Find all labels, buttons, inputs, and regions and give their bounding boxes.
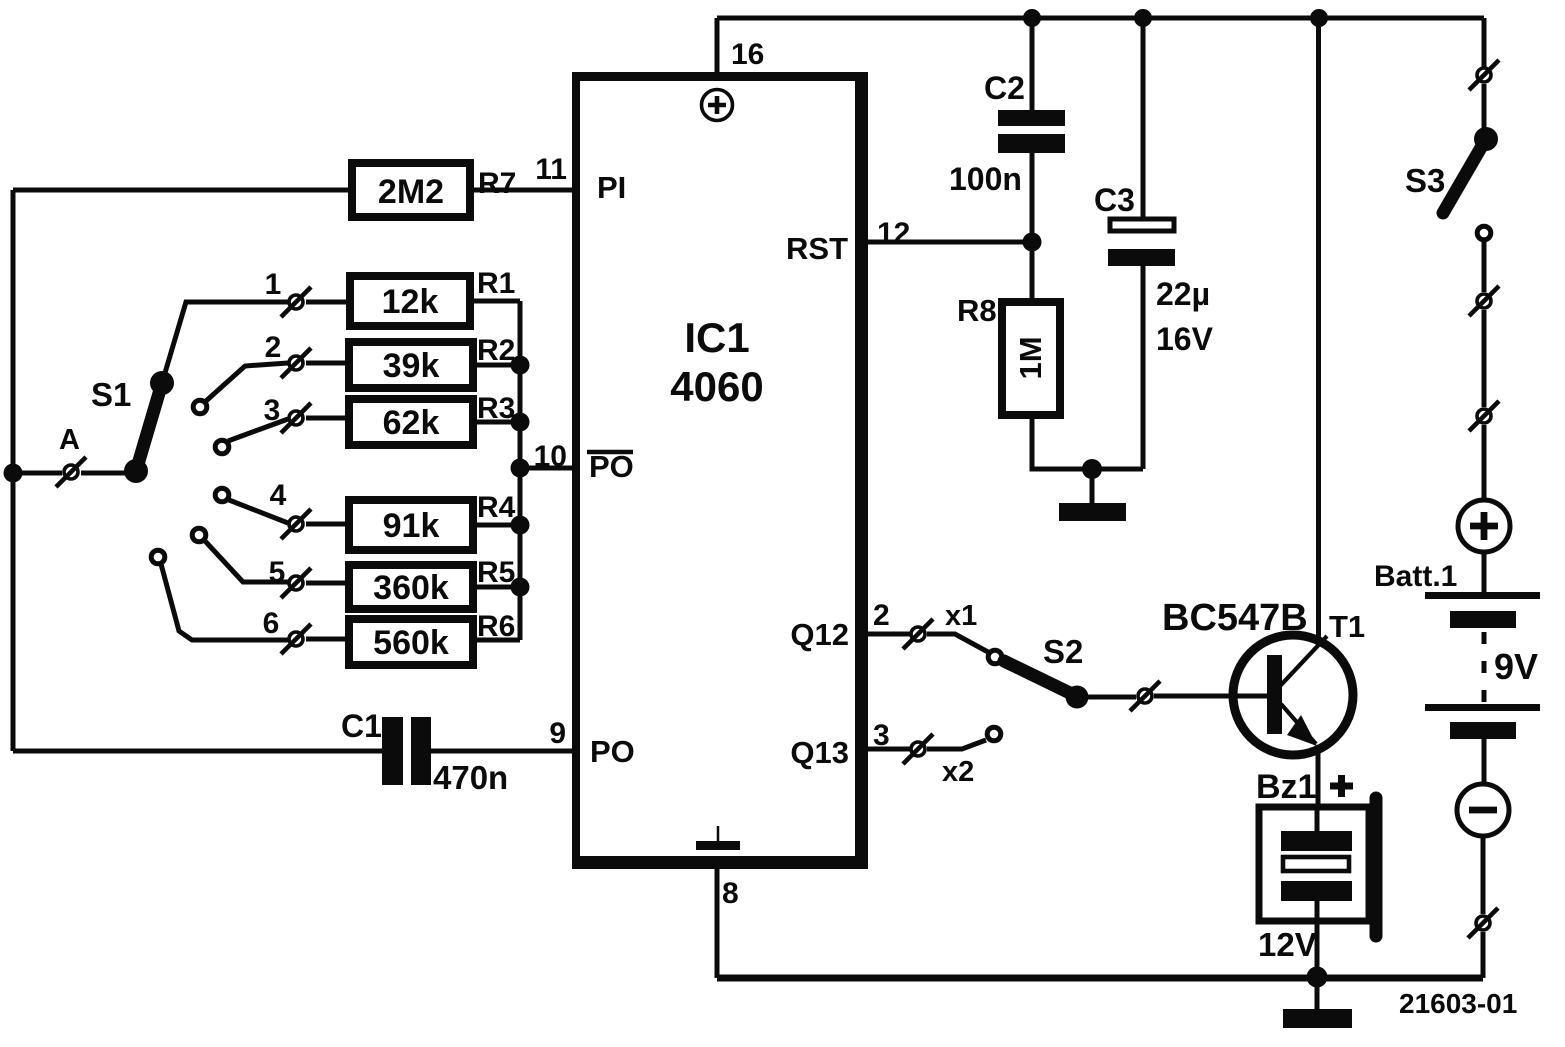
wire RST to C2 (868, 240, 1032, 245)
svg-text:16: 16 (731, 38, 764, 71)
switch contact chain 1 (1469, 286, 1499, 316)
wire R7 to pin 11 (470, 188, 574, 193)
switch contact x1 (903, 619, 933, 649)
ground symbol C2/C3 (1059, 469, 1126, 521)
svg-text:R5: R5 (477, 556, 515, 589)
wire S3 chain 1 (1482, 240, 1487, 292)
svg-text:21603-01: 21603-01 (1399, 988, 1517, 1019)
resistor R2 (349, 342, 473, 388)
svg-text:Batt.1: Batt.1 (1374, 560, 1457, 593)
wire contact to bottom rail (1481, 932, 1486, 978)
wire S2 to contact (1088, 695, 1136, 700)
wire rail to C2 (1030, 18, 1035, 110)
svg-text:x1: x1 (945, 600, 977, 632)
wire open contact 2 to contact 2 (206, 363, 288, 401)
svg-text:5: 5 (269, 556, 286, 589)
svg-text:12: 12 (877, 217, 910, 250)
svg-text:PO: PO (590, 734, 635, 769)
wire rail to C3 (1141, 18, 1146, 217)
wire contact 1 to R1 (306, 300, 350, 305)
wire contact to S3 (1482, 84, 1487, 130)
switch contact 4 (281, 509, 311, 539)
resistor R5 (349, 565, 473, 609)
svg-text:22µ: 22µ (1156, 276, 1210, 312)
svg-text:C2: C2 (984, 70, 1025, 106)
open contact 6 (151, 550, 165, 564)
svg-text:39k: 39k (383, 347, 440, 385)
resistor R1 (350, 276, 470, 326)
open contact S2 (988, 650, 1002, 664)
wire top-left horizontal (13, 188, 352, 193)
junction R4 bus (511, 516, 530, 535)
junction top rail C3 (1134, 9, 1152, 27)
wire open contact 6 to contact 6 (161, 564, 288, 640)
open contact 3 (215, 440, 229, 454)
wire R2 to bus (473, 363, 520, 368)
svg-text:12k: 12k (382, 283, 439, 321)
switch contact 2 (281, 348, 311, 378)
wire R3 to bus (473, 420, 520, 425)
switch contact bottom (1468, 908, 1498, 938)
wire contact 3 to R3 (306, 416, 349, 421)
wire open contact 4 to contact 4 (229, 500, 288, 523)
svg-text:16V: 16V (1156, 321, 1214, 357)
junction bottom rail (1307, 967, 1328, 988)
svg-text:PI: PI (597, 170, 626, 205)
IC1 body (572, 72, 868, 869)
svg-text:R8: R8 (957, 293, 997, 328)
resistor R3 (349, 399, 473, 445)
battery Batt.1 cell 1 (1425, 592, 1540, 628)
Bz1 plus sign (1330, 775, 1353, 797)
wire S3 chain 3 (1482, 425, 1487, 499)
svg-text:12V: 12V (1258, 926, 1317, 963)
wire contact 5 to R5 (306, 581, 349, 586)
svg-text:T1: T1 (1329, 609, 1365, 644)
svg-text:Q12: Q12 (790, 617, 849, 652)
wire open contact 5 to contact 5 (205, 541, 288, 582)
svg-text:9: 9 (549, 717, 566, 750)
battery Batt.1 cell 2 (1425, 704, 1540, 739)
switch contact S3 top (1469, 60, 1499, 90)
wire contact x1 to S2 (927, 634, 988, 652)
svg-text:Q13: Q13 (790, 735, 849, 770)
wire node A to contact A (13, 471, 62, 476)
wire top rail (717, 16, 1484, 21)
junction R2 bus (511, 356, 530, 375)
svg-text:S3: S3 (1405, 162, 1445, 199)
wire R1 to bus (470, 299, 520, 304)
capacitor C1 (382, 717, 431, 785)
wire open contact 3 to contact 3 (228, 419, 288, 441)
wire C3 bottom (1141, 266, 1146, 469)
svg-text:2: 2 (873, 599, 890, 632)
battery minus terminal (1457, 784, 1509, 836)
wire bottom rail (717, 975, 1483, 982)
switch S3 (1443, 127, 1498, 213)
junction top rail T1 (1310, 9, 1328, 27)
junction R5 bus (511, 578, 530, 597)
wire R6 to bus (473, 638, 520, 643)
wire R8 bottom (1032, 415, 1143, 469)
wire top rail corner down (1482, 18, 1487, 67)
svg-text:470n: 470n (433, 759, 508, 796)
wire S1 to contact 1 (162, 302, 288, 383)
svg-text:C3: C3 (1094, 182, 1135, 218)
svg-text:S1: S1 (91, 376, 131, 413)
resistor R4 (349, 500, 473, 550)
svg-text:2M2: 2M2 (378, 173, 444, 211)
svg-text:3: 3 (264, 394, 281, 427)
svg-text:C1: C1 (341, 708, 382, 744)
svg-text:560k: 560k (373, 624, 449, 662)
wire T1 emitter to Bz1 (1316, 752, 1321, 832)
wire contact 2 to R2 (306, 361, 349, 366)
svg-text:S2: S2 (1043, 633, 1083, 670)
svg-text:6: 6 (263, 607, 280, 640)
wire minus to contact (1481, 835, 1486, 914)
pin 16 wire (715, 18, 720, 72)
capacitor C2 (998, 110, 1065, 153)
battery plus terminal (1458, 500, 1510, 552)
resistor R7 (352, 163, 470, 217)
svg-text:R1: R1 (477, 267, 515, 300)
wire R5 to bus (473, 585, 520, 590)
open contact 5 (192, 528, 206, 542)
wire R4 to bus (473, 523, 520, 528)
switch S2 (1004, 661, 1089, 709)
switch contact 5 (281, 568, 311, 598)
svg-text:R7: R7 (478, 167, 516, 200)
wire Bz1 to bottom rail (1315, 901, 1320, 977)
switch contact 3 (281, 403, 311, 433)
switch contact A (56, 457, 86, 487)
open contact 2 (193, 400, 207, 414)
junction top rail C2 (1023, 9, 1041, 27)
open contact S3 (1477, 226, 1491, 240)
wire contact x2 to open contact (927, 740, 986, 749)
svg-text:9V: 9V (1494, 646, 1538, 687)
svg-text:100n: 100n (949, 161, 1022, 197)
battery dashed center (1482, 632, 1487, 702)
svg-text:91k: 91k (383, 507, 440, 545)
pin name PO with overline (587, 449, 634, 484)
switch contact 6 (281, 624, 311, 654)
svg-text:R4: R4 (477, 491, 516, 524)
svg-text:8: 8 (722, 877, 739, 910)
wire C1 left (13, 749, 382, 754)
svg-text:BC547B: BC547B (1162, 597, 1308, 639)
junction pin 10 (511, 459, 530, 478)
switch contact x2 (903, 734, 933, 764)
wire rail to T1 collector (1316, 18, 1321, 640)
wire contact A to S1 (81, 471, 136, 476)
svg-text:R2: R2 (477, 334, 515, 367)
svg-text:1: 1 (265, 268, 282, 301)
node A junction (4, 464, 23, 483)
junction RST node (1023, 233, 1042, 252)
junction R3 bus (511, 413, 530, 432)
wire resistor bus (518, 301, 523, 640)
switch contact 1 (281, 287, 311, 317)
svg-text:360k: 360k (373, 569, 449, 607)
wire bus to pin 10 (520, 466, 574, 471)
svg-text:Bz1: Bz1 (1256, 768, 1316, 806)
switch contact S2 out (1130, 681, 1160, 711)
transistor T1 (1233, 635, 1353, 755)
svg-text:1M: 1M (1013, 336, 1048, 379)
svg-text:RST: RST (786, 231, 848, 266)
wire C2 to R8 (1030, 153, 1035, 302)
wire contact 4 to R4 (306, 522, 349, 527)
svg-text:62k: 62k (383, 404, 440, 442)
wire C1 to pin 9 (431, 749, 574, 754)
wire battery to minus (1482, 739, 1487, 783)
wire contact to T1 base (1154, 694, 1267, 699)
wire left vertical (11, 190, 16, 751)
svg-text:4060: 4060 (670, 363, 763, 410)
wire plus to battery (1482, 550, 1487, 592)
IC negative supply symbol (696, 826, 740, 850)
wire Q13 to contact (868, 747, 910, 752)
junction ground node (1082, 459, 1102, 479)
svg-text:4: 4 (270, 479, 287, 512)
wire contact 6 to R6 (306, 637, 349, 642)
wire S3 chain 2 (1482, 310, 1487, 407)
svg-text:x2: x2 (942, 756, 974, 788)
wire Q12 to contact x1 (868, 632, 910, 637)
svg-text:A: A (59, 424, 80, 456)
switch S1 (124, 371, 174, 483)
open contact 4 (215, 488, 229, 502)
svg-text:IC1: IC1 (684, 314, 749, 361)
ground symbol bottom (1283, 977, 1352, 1028)
svg-text:11: 11 (535, 153, 567, 186)
pin 8 wire (715, 866, 720, 978)
switch contact chain 2 (1469, 401, 1499, 431)
IC positive supply symbol (702, 90, 733, 121)
open contact x2 (987, 727, 1001, 741)
resistor R8 (1002, 302, 1060, 415)
capacitor C3 electrolytic (1108, 219, 1175, 266)
resistor R6 (349, 619, 473, 665)
svg-text:10: 10 (534, 440, 567, 473)
svg-text:2: 2 (265, 331, 282, 364)
buzzer Bz1 (1259, 798, 1376, 936)
